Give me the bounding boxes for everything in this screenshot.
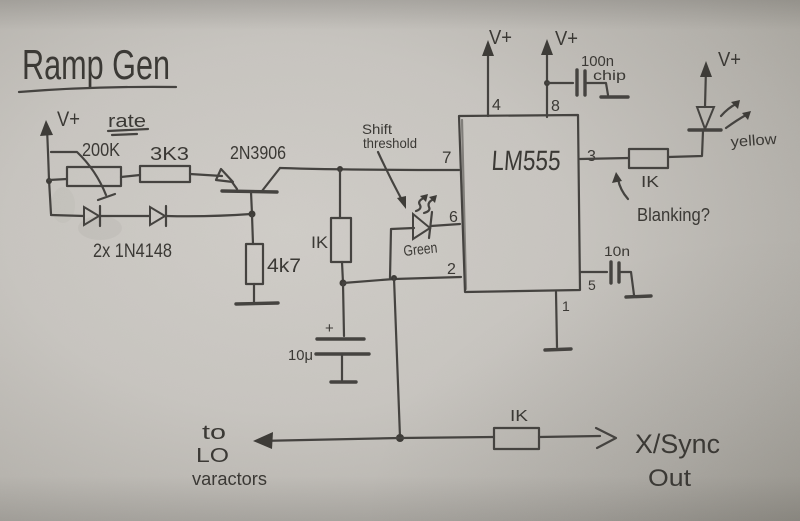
svg-text:3K3: 3K3 [150, 144, 189, 164]
wire R6 to X/Sync out arrow [539, 428, 616, 448]
svg-text:8: 8 [551, 98, 560, 115]
svg-text:3: 3 [587, 148, 596, 165]
wire bottom rail to output resistor [400, 437, 494, 438]
annotation Blanking? [612, 172, 710, 225]
title Ramp Gen [19, 41, 176, 92]
svg-text:2N3906: 2N3906 [230, 143, 286, 163]
svg-text:2: 2 [447, 261, 456, 278]
wire D2 to Q1 emitter node [166, 211, 256, 218]
svg-text:2x 1N4148: 2x 1N4148 [93, 241, 172, 262]
wire pin 3 to blanking resistor [580, 158, 629, 159]
wire pot to 3K3 [121, 175, 140, 177]
capacitor C3 10u electrolytic [288, 283, 369, 382]
svg-text:varactors: varactors [192, 469, 267, 489]
svg-text:7: 7 [442, 148, 451, 167]
svg-text:10n: 10n [604, 243, 630, 259]
wire Q1 collector to pin 7 of U1 [280, 166, 459, 172]
svg-text:4: 4 [492, 97, 501, 114]
svg-text:200K: 200K [82, 140, 120, 160]
node wire R4 to pin 2 [343, 277, 461, 283]
LED D3 green [390, 194, 460, 278]
label rate [108, 111, 148, 135]
wire node to bottom rail [394, 278, 404, 442]
diode D2 1N4148 [150, 206, 166, 226]
svg-text:threshold: threshold [363, 135, 417, 151]
wire pin 1 to ground [545, 292, 571, 350]
svg-text:IK: IK [641, 174, 659, 191]
resistor R6 1K output [494, 408, 539, 449]
svg-text:rate: rate [108, 111, 146, 131]
svg-text:1: 1 [562, 298, 570, 314]
wire pin 4 to V+ [482, 27, 512, 116]
resistor R2 3K3 [140, 144, 190, 182]
LED D4 yellow [689, 49, 777, 151]
potentiometer R1 200K [51, 140, 121, 200]
IC U1 LM555 [459, 115, 580, 292]
svg-text:IK: IK [311, 233, 329, 252]
resistor R3 4k7 [246, 215, 301, 302]
annotation shift threshold [362, 121, 417, 209]
ground below 4k7 [236, 303, 278, 304]
svg-text:LM555: LM555 [491, 145, 562, 176]
capacitor C2 10n [580, 243, 651, 297]
wire pin 8 to V+ [541, 28, 578, 117]
svg-text:10μ: 10μ [288, 347, 313, 364]
wire R5 to LED D4 [668, 131, 703, 157]
resistor R4 1K timing [311, 169, 351, 287]
svg-text:V+: V+ [718, 49, 741, 71]
transistor Q1 2N3906 [222, 143, 286, 214]
svg-text:chip: chip [593, 67, 626, 83]
capacitor C1 100n chip [547, 53, 628, 97]
svg-text:5: 5 [588, 277, 596, 293]
node V+ (left supply) [40, 108, 80, 180]
svg-text:+: + [325, 320, 334, 337]
svg-text:V+: V+ [57, 108, 80, 131]
wire 3K3 to Q1 base arrow [190, 169, 237, 189]
svg-text:LO: LO [196, 445, 229, 467]
diode D1 1N4148 [84, 206, 100, 226]
bottom rail wire to LO varactors [253, 432, 400, 449]
svg-text:V+: V+ [555, 28, 578, 50]
svg-text:6: 6 [449, 209, 458, 226]
label X/Sync Out [635, 429, 720, 492]
svg-text:IK: IK [510, 408, 528, 425]
wire left rail to D1 [51, 215, 84, 216]
svg-text:Blanking?: Blanking? [637, 205, 710, 225]
svg-text:to: to [202, 422, 226, 444]
svg-text:4k7: 4k7 [267, 256, 301, 277]
svg-text:X/Sync: X/Sync [635, 429, 720, 459]
label to LO varactors [192, 422, 267, 489]
wire D1 to D2 [101, 215, 149, 217]
svg-text:Ramp Gen: Ramp Gen [22, 41, 170, 88]
wire V+ to potentiometer [49, 179, 67, 180]
svg-text:Green: Green [403, 240, 439, 260]
svg-text:yellow: yellow [730, 131, 777, 151]
wire V+ rail down to diode row [46, 178, 52, 214]
resistor R5 1K blanking [629, 149, 668, 191]
svg-text:V+: V+ [489, 27, 512, 49]
svg-text:Out: Out [648, 465, 691, 492]
